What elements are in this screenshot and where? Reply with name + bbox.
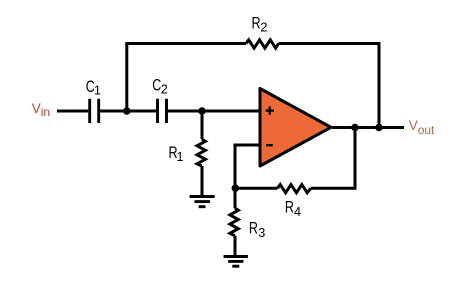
wire <box>125 44 128 112</box>
wire <box>311 187 357 190</box>
op-amp U1 <box>260 89 331 167</box>
svg-text:2: 2 <box>161 83 168 97</box>
wire <box>279 42 381 45</box>
wire <box>354 128 357 189</box>
svg-text:1: 1 <box>94 83 101 97</box>
wire <box>127 110 156 113</box>
node A junction <box>123 107 131 115</box>
ground (R1) <box>190 197 215 207</box>
node C junction <box>351 124 359 132</box>
ground (R3) <box>224 257 248 267</box>
wire <box>234 236 237 257</box>
resistor R3 <box>230 208 265 240</box>
node D junction <box>375 124 383 132</box>
node B junction <box>198 107 206 115</box>
wire <box>235 145 260 188</box>
capacitor C1 <box>86 78 101 123</box>
resistor R1 <box>169 139 206 166</box>
wire <box>332 126 404 129</box>
node E junction <box>232 184 240 192</box>
svg-text:R: R <box>252 15 261 33</box>
wire <box>168 110 260 113</box>
resistor R2 <box>246 15 279 48</box>
svg-text:R: R <box>249 220 258 238</box>
wire <box>235 187 278 190</box>
node Vin <box>32 101 50 119</box>
wire <box>201 111 204 139</box>
wire <box>57 110 88 113</box>
svg-text:1: 1 <box>177 150 184 164</box>
resistor R4 <box>278 185 312 219</box>
svg-text:Vout: Vout <box>409 118 435 137</box>
svg-text:2: 2 <box>260 21 267 35</box>
node Vout <box>409 118 435 137</box>
wire <box>100 110 127 113</box>
svg-text:R: R <box>285 199 294 217</box>
svg-text:3: 3 <box>258 226 265 240</box>
wire <box>234 188 237 208</box>
wire <box>201 166 204 197</box>
wire <box>378 44 381 128</box>
capacitor C2 <box>152 77 167 123</box>
svg-text:Vin: Vin <box>32 101 50 119</box>
wire <box>125 42 246 45</box>
svg-text:4: 4 <box>294 205 301 219</box>
